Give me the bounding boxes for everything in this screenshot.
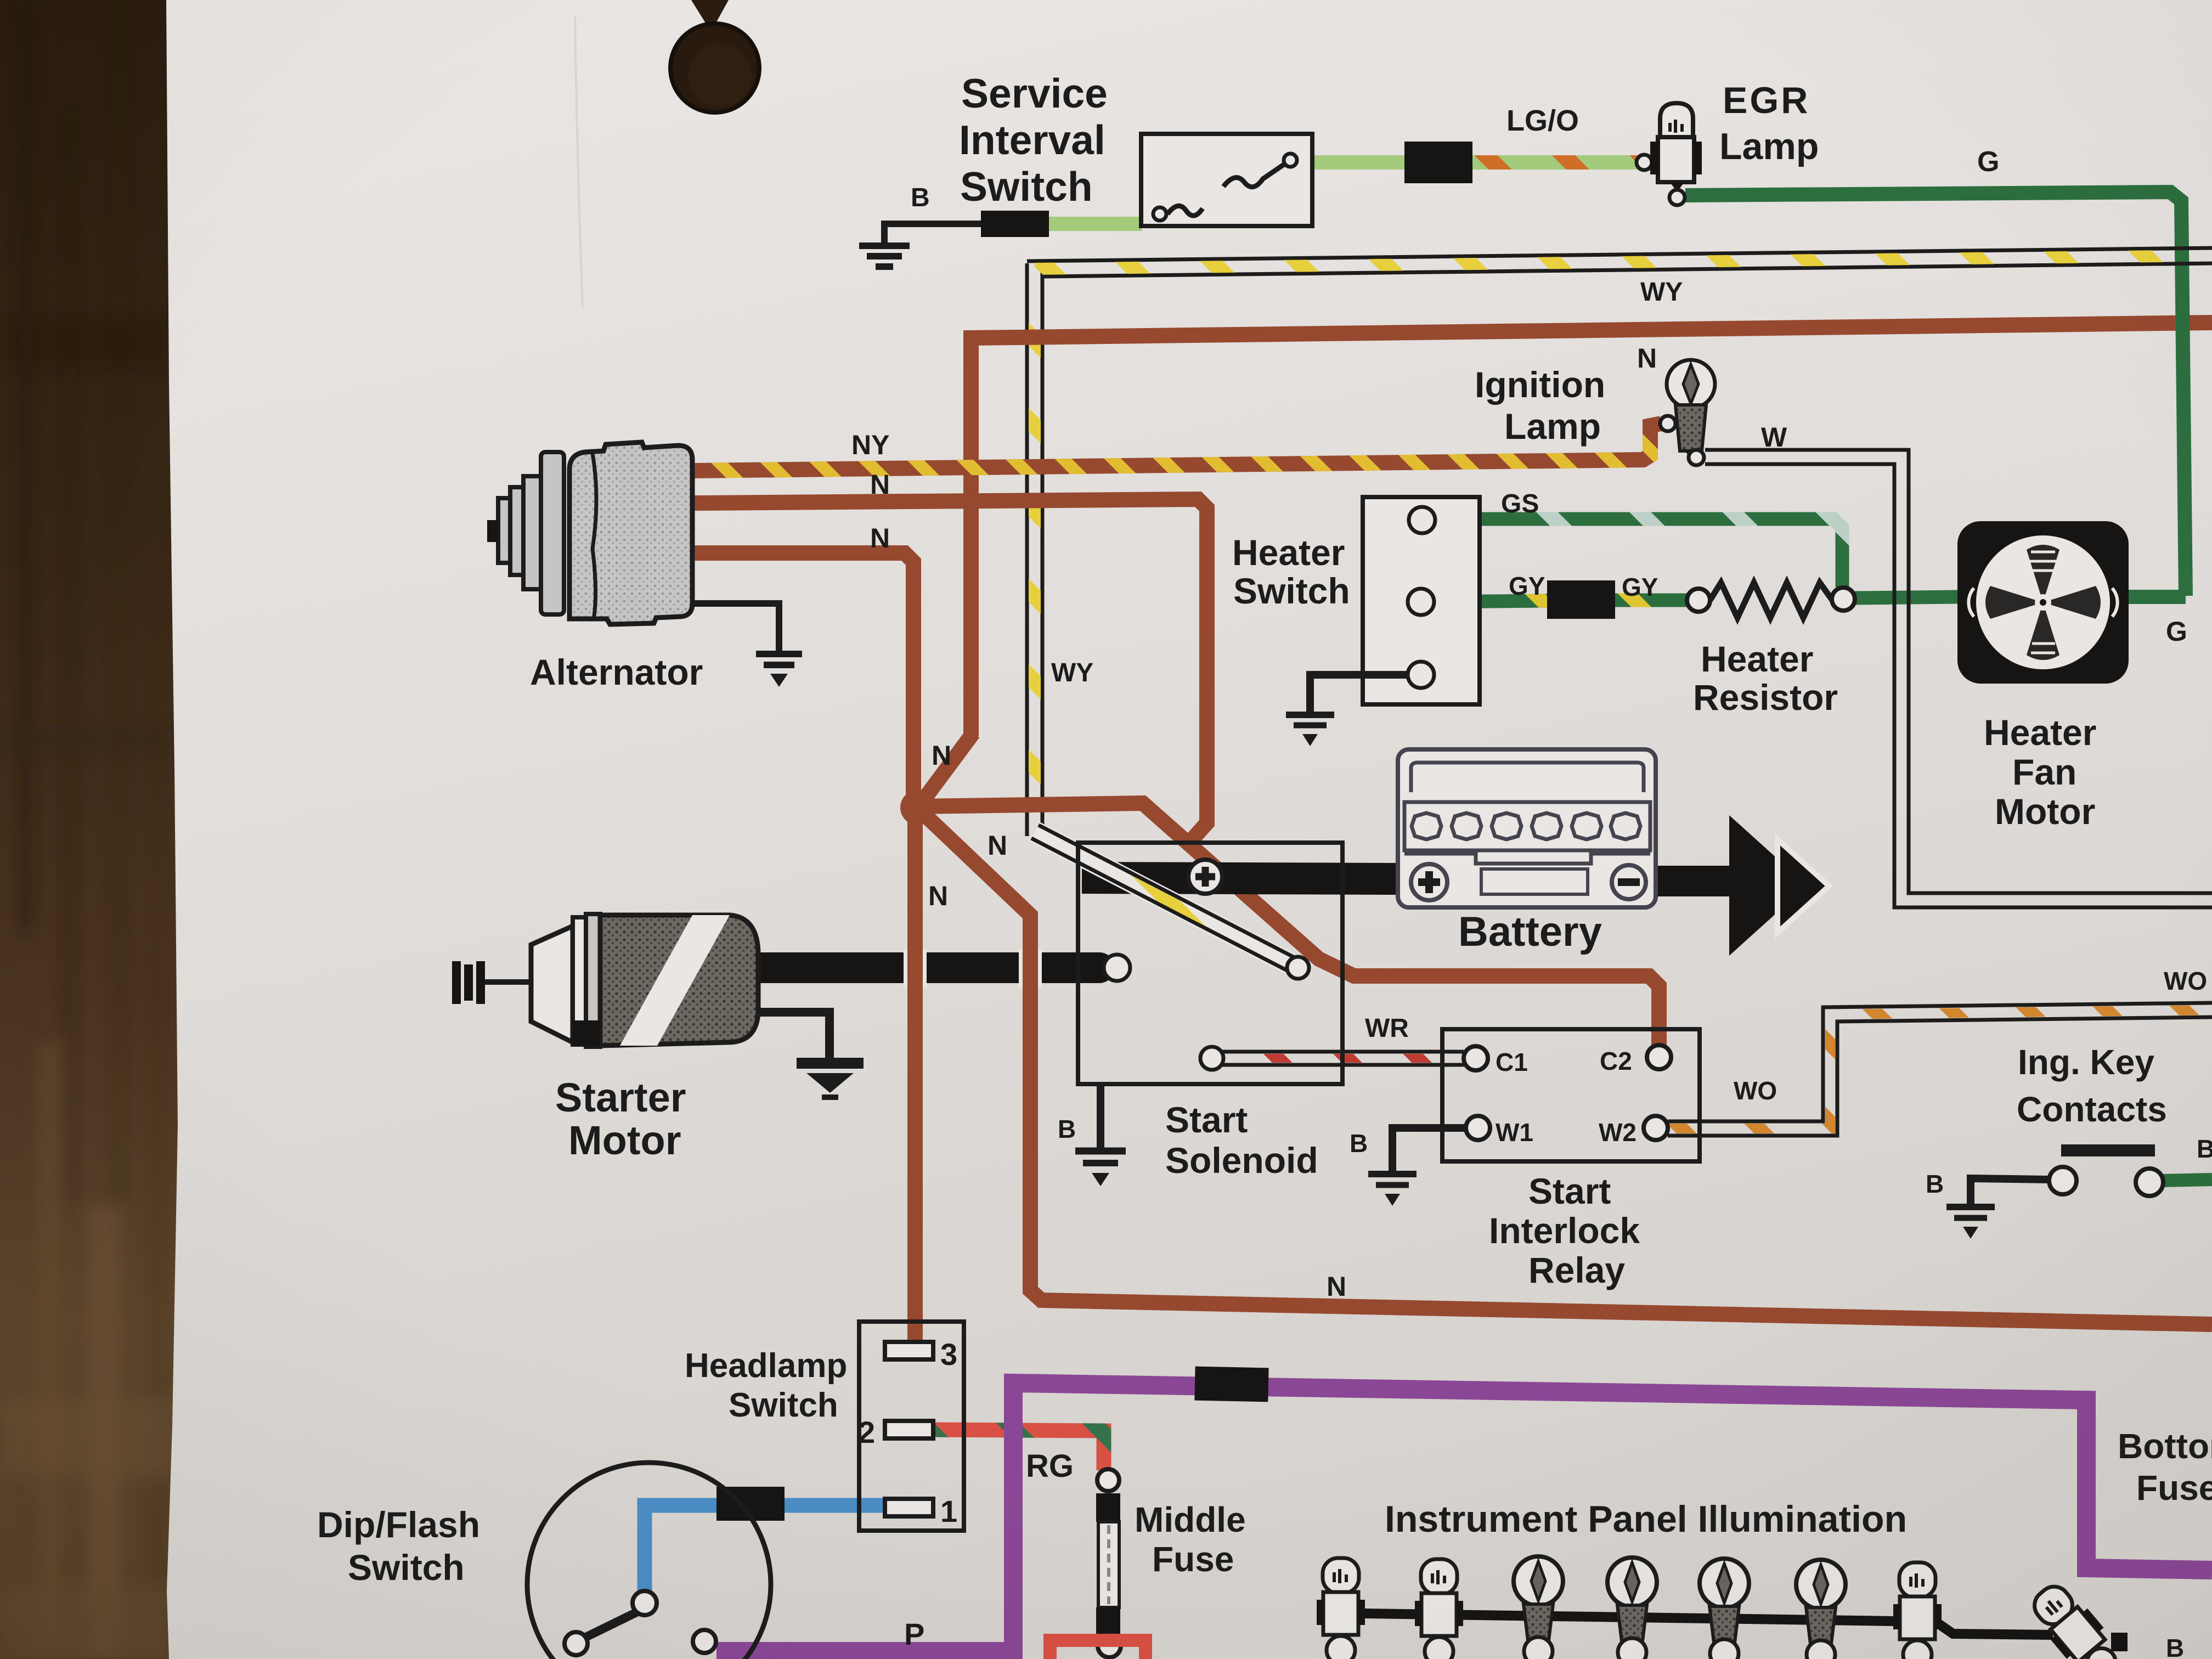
battery	[1398, 749, 1656, 907]
wire G ing. key contacts right lead (green)	[2162, 1180, 2212, 1181]
headlamp switch pin 2	[885, 1421, 933, 1438]
wire blue dip/flash switch to headlamp pin 1	[645, 1505, 884, 1592]
middle fuse	[1096, 1469, 1121, 1657]
start solenoid box	[1078, 843, 1342, 1084]
wire N alternator second lead down to solenoid feed	[692, 499, 1207, 848]
EGR lamp bulb	[1650, 103, 1702, 205]
terminal block B at end of lamp bus	[2111, 1633, 2128, 1651]
headlamp switch pin 1	[885, 1499, 933, 1516]
dip/flash terminal to purple wire	[693, 1630, 716, 1653]
ing. key contacts switch	[2049, 1150, 2163, 1196]
cable battery + to solenoid (heavy black)	[1082, 878, 1398, 879]
connector on purple wire	[1194, 1367, 1268, 1402]
service interval switch box	[1141, 134, 1312, 226]
punch hole in paper	[670, 0, 759, 112]
panel lamp 2	[1415, 1559, 1463, 1659]
heater switch terminal B with ground wire	[1286, 662, 1434, 746]
wire W ignition lamp to right edge (white, double line)	[1705, 450, 2212, 907]
connector on GY wire	[1547, 580, 1615, 619]
ground B at ing. key contacts	[1946, 1178, 2049, 1239]
headlamp switch box	[859, 1322, 964, 1531]
wire N junction down to headlamp switch pin 3	[907, 816, 923, 1342]
switch contact upper-right	[1223, 165, 1284, 187]
photo vignette	[0, 0, 1, 1]
panel lamp 3	[1514, 1556, 1563, 1659]
wire LG service interval switch to connector	[1311, 155, 1408, 170]
ground at alternator	[692, 603, 802, 687]
wire LG/O connector to EGR lamp (light green/orange)	[1470, 155, 1637, 170]
instrument panel illumination bus wire	[1325, 1613, 2053, 1635]
panel lamp 8 tilted	[2024, 1577, 2129, 1659]
switch contact lower-left	[1153, 207, 1166, 221]
wire LG ground connector to service interval switch (light green)	[1047, 217, 1142, 231]
dip/flash lever	[586, 1612, 637, 1637]
wire P purple main run from dip/flash to bottom fuse	[716, 1383, 2212, 1651]
wire RG headlamp switch pin 2 to middle fuse (red/green)	[933, 1430, 1104, 1470]
wire WY vertical segment (white/yellow)	[1027, 263, 1042, 836]
node N junction dot	[900, 790, 935, 825]
wire WO relay W2 to ing. key circuit (white/orange)	[1668, 1003, 2212, 1136]
cable starter motor to solenoid (heavy black)	[758, 952, 1099, 983]
terminal circle at starter cable end	[1104, 955, 1130, 981]
wire N junction diagonal to top loop	[918, 733, 973, 808]
wire N junction to battery feed and relay C2	[918, 803, 1659, 1046]
cable starter end round cap	[1084, 952, 1115, 983]
terminal + stud on battery cable	[1188, 860, 1222, 894]
terminal circle WR left end	[1200, 1047, 1223, 1070]
heater switch terminal GY	[1408, 589, 1434, 615]
relay terminal W1 with ground wire	[1368, 1116, 1490, 1206]
wire GY heater switch to connector (green/yellow)	[1433, 601, 1548, 602]
panel lamp 5	[1700, 1559, 1749, 1659]
ground at starter motor	[758, 1012, 864, 1097]
wire G EGR lamp to heater fan motor (green)	[1685, 192, 2186, 596]
heater fan motor	[1957, 521, 2129, 684]
panel lamp 6	[1796, 1560, 1846, 1659]
heater resistor	[1687, 583, 1855, 618]
connector on B lead of service switch	[981, 211, 1049, 237]
heater switch terminal GS	[1409, 507, 1435, 533]
wire NY alternator to ignition lamp (brown/yellow)	[692, 424, 1661, 471]
bottom fuse red holder box	[1050, 1640, 1145, 1659]
dip/flash blue terminal	[633, 1591, 657, 1615]
panel lamp 4	[1607, 1558, 1657, 1659]
wood grain streaks	[0, 0, 1, 1]
start interlock relay box	[1442, 1029, 1700, 1161]
wire WY diagonal to solenoid contact (white/yellow over cable)	[1031, 825, 1295, 971]
wire WR solenoid to relay C1 (white/red)	[1222, 1052, 1464, 1065]
heater switch box	[1363, 497, 1480, 704]
connector on LG/O wire to EGR lamp	[1404, 142, 1472, 183]
alternator	[487, 442, 692, 624]
connector on blue wire	[716, 1487, 785, 1521]
panel lamp 1	[1317, 1558, 1365, 1659]
ground B at start solenoid	[1075, 1084, 1126, 1186]
wire WY horizontal main run (white/yellow)	[1027, 248, 2212, 276]
white break where N bottom loop wire crosses starter cable	[1019, 949, 1042, 988]
starter motor	[452, 914, 758, 1047]
white break where N wire crosses starter cable (junction drop)	[904, 949, 927, 988]
paper crease	[575, 16, 583, 307]
terminal circle solenoid moving contact	[1287, 957, 1309, 979]
wire G heater fan motor right lead	[2128, 590, 2186, 604]
wire GY connector to resistor (green/yellow)	[1615, 594, 1688, 607]
cable battery - to chassis arrow (heavy black)	[1654, 866, 1739, 896]
relay terminal W2	[1644, 1116, 1668, 1140]
headlamp switch pin 3	[885, 1342, 933, 1359]
wire GS heater switch to resistor output (green/slate)	[1435, 519, 1842, 587]
dip/flash switch circle	[527, 1463, 771, 1659]
dip/flash terminal left	[565, 1632, 588, 1655]
wire N junction diagonal to bottom loop	[921, 811, 2212, 1324]
panel lamp 7	[1893, 1562, 1942, 1659]
wire G resistor to fan motor	[1854, 597, 1959, 598]
wire N alternator third lead into junction	[692, 553, 913, 797]
relay terminal C1	[1464, 1046, 1488, 1070]
ignition lamp	[1660, 360, 1715, 465]
wire N top loop (brown, left vertical + top horizontal)	[971, 323, 2212, 736]
chassis arrow at battery negative	[1729, 815, 1829, 956]
ground B at service interval switch	[859, 224, 981, 267]
terminal circle EGR lamp left	[1637, 155, 1652, 170]
relay terminal C2	[1647, 1045, 1671, 1069]
